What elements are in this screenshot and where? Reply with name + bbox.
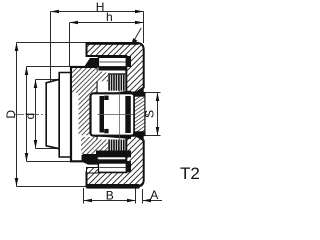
- svg-text:H: H: [96, 0, 105, 14]
- side roller inner left bar: [100, 96, 105, 133]
- black band below side-roller box: [99, 133, 131, 139]
- svg-text:D: D: [4, 110, 18, 119]
- svg-text:d: d: [23, 113, 37, 120]
- dim3 line: [35, 80, 37, 149]
- side roller box: [91, 93, 135, 135]
- stud seat wedge bottom: [97, 140, 109, 151]
- side roller centerline cross: [97, 91, 145, 147]
- A arrow outside pointing left: [143, 199, 152, 203]
- d top extension: [27, 66, 72, 68]
- stud hatched top band: [72, 68, 97, 93]
- d arrows: [25, 67, 29, 76]
- arrowheads: [15, 10, 160, 203]
- axial rollers bottom stripes: [83, 140, 132, 158]
- dim3 arrows: [34, 80, 38, 89]
- svg-text:A: A: [150, 188, 158, 202]
- h arrows: [70, 21, 79, 25]
- D arrows: [15, 43, 19, 52]
- dim H line: [51, 11, 144, 13]
- cage band top: [98, 67, 126, 71]
- ring bottom-left shoulder: [87, 168, 99, 174]
- side roller nub top: [104, 96, 108, 100]
- H arrows: [51, 10, 60, 14]
- svg-text:B: B: [106, 189, 114, 203]
- D top extension: [17, 42, 87, 44]
- dim3 top extension: [36, 79, 60, 81]
- dim S line: [157, 93, 159, 136]
- thrust rim hatched: [134, 93, 145, 136]
- side roller inner right bar: [125, 96, 131, 133]
- ring bottom edge thick: [87, 184, 140, 189]
- thrust rim bottom cap: [134, 131, 145, 135]
- axial rollers top stripes: [108, 73, 125, 90]
- stud hatched bottom band: [81, 137, 97, 154]
- dim D line: [16, 43, 18, 187]
- flange cone: [46, 73, 71, 158]
- H/h right extension: [143, 12, 145, 44]
- B arrows: [84, 199, 93, 203]
- needle roller top box: [98, 57, 126, 67]
- stud hatched middle web: [79, 93, 91, 135]
- seal top-right: [126, 56, 131, 67]
- dim B line: [84, 200, 136, 202]
- thrust rim top cap: [134, 93, 145, 97]
- radius leader line: [131, 28, 141, 46]
- side roller nub bottom: [104, 129, 108, 133]
- S bottom extension: [145, 135, 161, 137]
- svg-text:S: S: [142, 110, 156, 118]
- h left extension: [69, 23, 71, 68]
- svg-text:T2: T2: [180, 164, 200, 183]
- centerline main axis: [15, 114, 150, 116]
- black band above side-roller box: [99, 91, 131, 99]
- B right / A left extension: [135, 188, 137, 204]
- needle roller bottom box: [98, 163, 126, 172]
- ring top edge thick: [87, 42, 139, 45]
- needle top midline: [100, 61, 126, 63]
- stud seat wedge top: [97, 71, 109, 82]
- dim A line: [143, 200, 163, 202]
- svg-text:h: h: [106, 10, 113, 24]
- outer ring top section: [87, 43, 144, 187]
- S top extension: [145, 92, 161, 94]
- flange cylinder1: [59, 73, 71, 158]
- seal top-left: [84, 58, 98, 67]
- outer ring bottom section: [87, 136, 144, 187]
- seal bottom-left: [82, 155, 99, 165]
- B left extension: [83, 188, 85, 204]
- seal bottom-right: [126, 161, 131, 172]
- cage band bottom: [98, 159, 126, 163]
- radius leader arrowhead: [131, 38, 138, 46]
- dim d line (unlabeled middle): [26, 67, 28, 162]
- ring wall dark corner bottom: [137, 136, 144, 142]
- D bottom extension: [17, 186, 87, 188]
- A right extension: [142, 189, 144, 204]
- S arrows: [156, 93, 160, 102]
- H left extension: [50, 12, 52, 147]
- needle bottom midline: [100, 167, 126, 169]
- dim3 bottom extension: [36, 148, 59, 150]
- ring wall dark corner top: [137, 87, 144, 93]
- dim h line: [70, 22, 144, 24]
- stud collar outline: [71, 67, 97, 161]
- d bottom extension: [27, 161, 83, 163]
